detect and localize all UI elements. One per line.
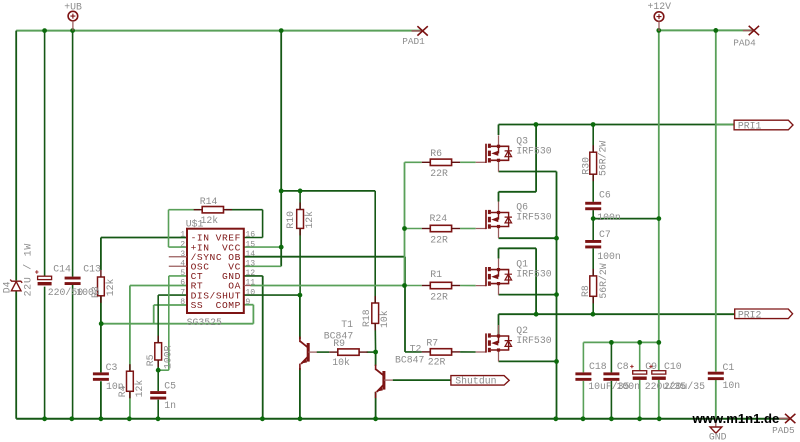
- polarized capacitor C14: [35, 263, 83, 298]
- wire pin7 to R5: [158, 294, 186, 296]
- svg-text:R8: R8: [580, 285, 591, 297]
- svg-text:4: 4: [180, 260, 185, 269]
- svg-text:8: 8: [180, 298, 185, 307]
- wire pin15 VCC: [244, 246, 281, 248]
- transistor Q3 (IRF530 MOSFET): [476, 135, 552, 172]
- diode D4 zener 22V/1W: [2, 243, 34, 296]
- capacitor C8: [603, 361, 640, 392]
- svg-text:R10: R10: [285, 211, 296, 229]
- svg-text:100n: 100n: [76, 287, 100, 298]
- svg-text:D4: D4: [2, 281, 13, 293]
- node GND bottom rail: [16, 418, 790, 420]
- svg-text:12: 12: [245, 269, 255, 278]
- polarized capacitor C10: [649, 361, 705, 392]
- junction mid to +12V: [656, 216, 661, 221]
- wire left column to D4: [15, 31, 17, 281]
- svg-text:22R: 22R: [428, 357, 446, 368]
- svg-text:22R: 22R: [430, 234, 448, 245]
- wire Q3 source to GND column: [499, 171, 557, 173]
- wire bypass cap top rail: [583, 341, 658, 343]
- wire R9 to junction: [367, 351, 376, 353]
- junction PRI1/R30: [591, 122, 596, 127]
- pad PAD1: [402, 26, 428, 47]
- wire RT net: pin6 to R4: [130, 285, 187, 287]
- junction rail C3: [99, 416, 104, 421]
- transistor Q1 (IRF530 MOSFET): [476, 259, 552, 296]
- resistor R10: [285, 203, 315, 236]
- supply symbol +12V: [648, 1, 672, 31]
- wire pin12 GND to rail: [244, 275, 263, 277]
- wire Q1 drain loop: [498, 248, 500, 258]
- junction sources A: [554, 236, 559, 241]
- wire gate resistor column: [404, 162, 406, 285]
- svg-text:R14: R14: [200, 196, 218, 207]
- svg-text:C1: C1: [723, 362, 735, 373]
- svg-text:R24: R24: [430, 213, 448, 224]
- svg-text:100n: 100n: [597, 251, 621, 262]
- svg-text:9: 9: [245, 298, 250, 307]
- junction rail T2: [373, 416, 378, 421]
- wire snubber column R30/C6/C7/R8: [592, 125, 594, 153]
- svg-text:R1: R1: [430, 269, 442, 280]
- wire C8 bottom: [610, 381, 612, 419]
- resistor R30: [580, 141, 608, 182]
- wire VCC pullup rail: [281, 190, 375, 192]
- wire C5 top: [157, 370, 159, 391]
- wire R10 bottom lead: [299, 228, 301, 295]
- svg-text:C6: C6: [599, 189, 611, 200]
- pad PAD4: [733, 26, 759, 49]
- junction rail R4: [127, 416, 132, 421]
- svg-text:220u/35: 220u/35: [664, 381, 705, 392]
- svg-text:PRI1: PRI1: [738, 120, 762, 131]
- wire Q2 source: [499, 360, 557, 362]
- svg-text:C8: C8: [617, 361, 629, 372]
- svg-text:C7: C7: [599, 229, 611, 240]
- wire OB net: pin14 to gate resistors: [244, 256, 405, 258]
- node +12V rail: [659, 29, 754, 31]
- wire pin9 loop: [252, 305, 254, 324]
- wire C10 to rail: [658, 380, 660, 419]
- wire to R24: [405, 228, 422, 230]
- wire R6 to Q3 gate: [460, 161, 476, 163]
- svg-text:15: 15: [245, 240, 255, 249]
- junction VCC rail A: [279, 189, 284, 194]
- capacitor C3: [93, 362, 124, 392]
- wire C14 column top: [44, 31, 46, 277]
- wire R1 to Q1 gate: [460, 285, 476, 287]
- pin 3 (/SYNC): [169, 256, 187, 258]
- svg-text:BC847: BC847: [395, 354, 425, 365]
- junction pin15 VCC: [279, 245, 284, 250]
- svg-text:3: 3: [180, 250, 185, 259]
- wire R18 bottom: [374, 323, 376, 352]
- junction rail C13: [69, 416, 74, 421]
- resistor R9: [329, 338, 367, 368]
- junction +UB drop: [279, 28, 284, 33]
- svg-text:22U / 1W: 22U / 1W: [23, 243, 34, 296]
- wire Q6 drain loop: [535, 125, 537, 192]
- wire C3 to rail: [100, 381, 102, 419]
- node MOSFET source column: [556, 172, 558, 419]
- svg-text:IRF530: IRF530: [516, 269, 551, 280]
- capacitor C13: [65, 263, 101, 298]
- wire C9 top: [639, 342, 641, 370]
- svg-text:2: 2: [180, 240, 185, 249]
- wire Q1 source: [499, 294, 557, 296]
- junction rail C10: [657, 416, 662, 421]
- node +UB drop to VCC: [280, 31, 282, 248]
- junction cap rail C: [656, 340, 661, 345]
- svg-text:C5: C5: [164, 380, 176, 391]
- wire R24 to Q6 gate: [460, 228, 476, 230]
- wire +12V to C1 column: [715, 30, 717, 371]
- svg-text:C3: C3: [106, 362, 118, 373]
- wire T1 emitter to rail: [299, 368, 301, 419]
- svg-text:10n: 10n: [106, 381, 124, 392]
- svg-text:10: 10: [245, 288, 255, 297]
- svg-text:T2: T2: [410, 344, 422, 355]
- resistor R8: [580, 263, 609, 303]
- node +UB top rail: [16, 30, 422, 32]
- junction SHUT/R10/T1: [298, 293, 303, 298]
- resistor R1: [422, 269, 460, 302]
- svg-text:10k: 10k: [379, 310, 390, 328]
- svg-text:13: 13: [245, 260, 255, 269]
- supply symbol +UB: [64, 1, 82, 30]
- wire Q3 drain: [498, 125, 500, 136]
- wire Q2 drain: [498, 314, 500, 337]
- svg-text:C10: C10: [664, 361, 682, 372]
- svg-text:22R: 22R: [430, 291, 448, 302]
- svg-text:1: 1: [180, 231, 185, 240]
- net flag PRI2: [735, 309, 793, 320]
- junction R10 top: [298, 189, 303, 194]
- wire OA net: pin11 long line: [251, 285, 405, 287]
- svg-text:7: 7: [180, 288, 185, 297]
- svg-text:12k: 12k: [201, 215, 219, 226]
- junction PRI1/Q6: [534, 122, 539, 127]
- svg-text:12k: 12k: [134, 380, 145, 398]
- wire C5 bottom to rail: [157, 400, 159, 419]
- svg-text:10n: 10n: [723, 380, 741, 391]
- svg-text:IRF530: IRF530: [516, 145, 551, 156]
- transistor T1 (BC847): [300, 319, 353, 370]
- wire C14 column bottom: [44, 287, 46, 419]
- svg-text:56R/2W: 56R/2W: [598, 141, 609, 176]
- resistor R7: [422, 337, 460, 367]
- wire pin1 to R3: [101, 237, 187, 239]
- pin 4 (OSC): [169, 265, 187, 267]
- svg-text:11: 11: [245, 279, 255, 288]
- wire D4 to bottom rail: [15, 291, 17, 419]
- wire C18 top: [582, 342, 584, 372]
- junction rail C8: [609, 416, 614, 421]
- junction PRI2 left: [534, 312, 539, 317]
- junction +UB/C14: [42, 28, 47, 33]
- wire T1 base to R9: [317, 351, 330, 353]
- junction R24 tap: [402, 226, 407, 231]
- svg-text:C13: C13: [83, 263, 101, 274]
- capacitor C5: [150, 380, 176, 410]
- svg-text:R30: R30: [580, 157, 591, 175]
- capacitor C1: [708, 362, 740, 391]
- wire pin13 VC: [244, 265, 281, 267]
- svg-text:C18: C18: [589, 361, 607, 372]
- wire C18 bottom: [582, 381, 584, 419]
- svg-text:PAD4: PAD4: [733, 38, 756, 49]
- wire net SS/COMP horizontal: [101, 323, 253, 325]
- resistor R4: [117, 364, 145, 398]
- junction R9/R18/T2: [373, 350, 378, 355]
- net flag Shutdun: [451, 376, 509, 387]
- net flag PRI1: [734, 120, 793, 131]
- svg-text:C14: C14: [53, 263, 71, 274]
- svg-text:SG3525: SG3525: [187, 317, 222, 328]
- resistor R5: [145, 336, 174, 369]
- wire pin5 jog to CT node: [169, 275, 187, 277]
- svg-text:IRF530: IRF530: [516, 335, 551, 346]
- svg-text:14: 14: [245, 250, 255, 259]
- wire to R18 top: [374, 191, 376, 303]
- svg-text:16: 16: [245, 231, 255, 240]
- junction cap rail A: [609, 340, 614, 345]
- junction rail C9: [637, 416, 642, 421]
- resistor R6: [422, 148, 460, 179]
- node PRI1 line: [499, 124, 735, 126]
- wire R14 right to pin16: [226, 209, 263, 211]
- wire R5 bottom: [157, 360, 159, 370]
- junction rail T1: [298, 416, 303, 421]
- wire to C10: [658, 342, 660, 370]
- svg-text:T1: T1: [341, 319, 353, 330]
- svg-text:22R: 22R: [430, 168, 448, 179]
- junction rail C14: [42, 416, 47, 421]
- wire R3 bottom to C3: [100, 296, 102, 373]
- wire R10 top lead: [299, 191, 301, 210]
- junction +UB/C13: [70, 28, 75, 33]
- resistor R14: [194, 196, 232, 226]
- svg-text:R7: R7: [426, 337, 438, 348]
- svg-text:56R/2W: 56R/2W: [598, 263, 609, 298]
- wire to R1: [405, 285, 422, 287]
- wire C13 column bottom: [72, 285, 74, 419]
- polarized capacitor C9: [630, 361, 686, 392]
- svg-text:6: 6: [180, 279, 185, 288]
- svg-text:BC847: BC847: [324, 330, 354, 341]
- svg-text:IRF530: IRF530: [516, 212, 551, 223]
- svg-text:+UB: +UB: [64, 1, 82, 12]
- junction sources B: [554, 292, 559, 297]
- capacitor C6: [585, 189, 621, 223]
- junction snubber mid: [591, 216, 596, 221]
- wire R14 left to pin2: [169, 209, 201, 211]
- wire Q6 source: [499, 237, 557, 239]
- svg-text:PRI2: PRI2: [738, 309, 762, 320]
- wire R4 bottom to rail: [129, 391, 131, 419]
- op-amp U1 SG3525 PWM controller: [169, 218, 256, 327]
- wire T1 collector: [299, 295, 301, 339]
- junction rail sources: [553, 416, 558, 421]
- junction rail GND12: [260, 416, 265, 421]
- transistor Q6 (IRF530 MOSFET): [476, 202, 552, 239]
- pin 11 (OA): [244, 285, 251, 287]
- svg-text:PAD1: PAD1: [402, 36, 425, 47]
- wire to R6: [405, 161, 422, 163]
- wire T2 emitter to rail: [375, 392, 377, 419]
- junction rail C18: [581, 416, 586, 421]
- wire C9 bottom: [639, 380, 641, 419]
- pad PAD5: [772, 414, 795, 436]
- svg-text:R5: R5: [145, 354, 156, 366]
- transistor T2 (BC847): [376, 344, 425, 399]
- node PRI2 line: [499, 313, 735, 315]
- svg-text:100R: 100R: [163, 345, 174, 369]
- svg-text:R6: R6: [430, 148, 442, 159]
- svg-text:PAD5: PAD5: [772, 425, 795, 436]
- wire T2 collector: [375, 352, 377, 366]
- resistor R18: [361, 296, 390, 330]
- svg-text:+12V: +12V: [648, 1, 672, 12]
- junction +12V/C1: [713, 28, 718, 33]
- junction +12V rail: [656, 28, 661, 33]
- svg-text:COMP: COMP: [216, 300, 241, 311]
- svg-text:Shutdun: Shutdun: [455, 376, 496, 387]
- junction rail C5: [156, 416, 161, 421]
- svg-text:12k: 12k: [105, 278, 116, 296]
- wire snubber midpoint to +12V column: [593, 218, 659, 220]
- wire +12V column: [658, 30, 660, 342]
- capacitor C18: [575, 361, 629, 392]
- svg-text:R18: R18: [361, 309, 372, 327]
- junction R3/C3/SS: [99, 321, 104, 326]
- svg-text:SS: SS: [191, 300, 204, 311]
- svg-text:GND: GND: [709, 431, 727, 442]
- wire pin8 loop: [154, 304, 187, 306]
- wire down to PRI2: [535, 248, 537, 314]
- svg-text:5: 5: [180, 269, 185, 278]
- junction sources C: [554, 359, 559, 364]
- resistor R24: [422, 213, 460, 245]
- ground symbol GND: [709, 419, 727, 442]
- junction OA tap: [402, 283, 407, 288]
- wire C1 to rail: [715, 379, 717, 419]
- svg-text:12k: 12k: [304, 211, 315, 229]
- wire R3 top: [100, 238, 102, 271]
- junction cap rail B: [637, 340, 642, 345]
- junction CT node: [156, 368, 161, 373]
- resistor R3: [90, 270, 116, 303]
- capacitor C7: [585, 229, 621, 262]
- svg-text:100n: 100n: [617, 381, 641, 392]
- wire R7 to Q2 gate: [460, 351, 476, 353]
- svg-text:10k: 10k: [332, 357, 350, 368]
- svg-text:1n: 1n: [164, 400, 176, 411]
- wire PRI1 to flag: [716, 124, 734, 126]
- junction PRI2/R8: [591, 312, 596, 317]
- wire C13 column top: [72, 31, 74, 277]
- wire C8 top: [610, 342, 612, 372]
- wire T2 base to Shutdwn flag: [393, 379, 451, 381]
- transistor Q2 (IRF530 MOSFET): [476, 325, 552, 362]
- svg-text:100n: 100n: [597, 212, 621, 223]
- svg-text:www.m1n1.de: www.m1n1.de: [692, 411, 780, 426]
- wire pin10 SHUT: [244, 294, 300, 296]
